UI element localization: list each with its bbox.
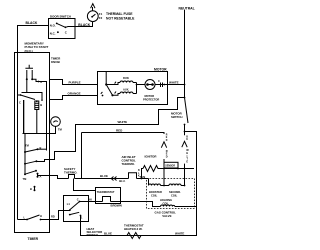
- svg-text:WHITE: WHITE: [118, 120, 128, 124]
- svg-text:RUN: RUN: [123, 76, 129, 80]
- svg-text:PROTECTOR: PROTECTOR: [143, 97, 159, 101]
- wire to gas valve node A: [163, 159, 165, 169]
- wire windings join: [137, 83, 146, 94]
- svg-text:F2: F2: [99, 16, 103, 20]
- svg-text:ORANGE: ORANGE: [68, 91, 81, 95]
- door switch lever: [57, 23, 66, 27]
- timer contact pair B: [34, 186, 36, 188]
- svg-text:C: C: [19, 100, 21, 104]
- svg-text:BROWN: BROWN: [111, 204, 122, 208]
- wire branch to heater return: [81, 132, 197, 236]
- wire to thermal fuse: [75, 22, 93, 27]
- svg-text:SECOND.: SECOND.: [169, 190, 181, 194]
- svg-text:(N.O.): (N.O.): [25, 49, 33, 53]
- svg-text:MOTOR: MOTOR: [145, 94, 155, 98]
- svg-text:N.C.: N.C.: [50, 32, 56, 36]
- timer motor TM: [51, 117, 61, 127]
- svg-text:TM: TM: [58, 128, 62, 132]
- svg-text:B: B: [40, 103, 42, 107]
- timer box: [15, 53, 50, 233]
- svg-text:E: E: [186, 159, 188, 163]
- svg-text:BOOSTER: BOOSTER: [149, 190, 162, 194]
- heat selector switch box: [64, 196, 89, 222]
- wire orange timer to motor: [50, 96, 98, 100]
- svg-text:THERMOSTAT: THERMOSTAT: [97, 190, 115, 194]
- svg-text:VALVE: VALVE: [162, 214, 171, 218]
- node A junction: [163, 168, 165, 170]
- timer cam bus: [24, 100, 25, 174]
- connector arrow red: [161, 142, 166, 148]
- motor protector: [145, 80, 155, 90]
- wire fuse to L1: [92, 7, 94, 11]
- timer heater resistor B: [35, 101, 39, 110]
- wire motor out white: [155, 84, 185, 86]
- thermostat element: [96, 197, 121, 202]
- svg-text:KNOB: KNOB: [51, 60, 61, 64]
- air inlet thermostat: [129, 173, 149, 179]
- svg-text:RED: RED: [116, 129, 123, 133]
- svg-text:COIL: COIL: [171, 194, 178, 198]
- svg-text:SWITCH: SWITCH: [171, 115, 182, 119]
- svg-text:A: A: [40, 174, 42, 178]
- booster coil: [149, 184, 170, 186]
- wire to terminal A: [32, 79, 38, 81]
- pin C ticks: [161, 83, 163, 88]
- timer contact pair A: [37, 173, 39, 175]
- wire push-start to cam lever: [22, 79, 43, 99]
- svg-text:H: H: [40, 214, 42, 218]
- wire into heat selector: [64, 210, 70, 212]
- svg-text:N.O.: N.O.: [50, 23, 56, 27]
- wire safety row to thermostat box: [74, 179, 96, 191]
- gas control valve box (dashed): [147, 179, 195, 209]
- arrow L1 power: [91, 4, 95, 9]
- booster coil feed: [148, 179, 150, 186]
- thermal fuse F1-F2: [87, 11, 98, 22]
- door switch S1 box: [49, 19, 76, 39]
- secondary coil: [169, 184, 185, 186]
- wire purple timer to motor: [50, 80, 98, 85]
- svg-text:HEATER-2 W.: HEATER-2 W.: [124, 227, 143, 231]
- svg-text:WHITE: WHITE: [169, 81, 179, 85]
- timer L-H switch: [18, 215, 50, 220]
- svg-text:THERMO.: THERMO.: [122, 162, 136, 166]
- igniter R1: [143, 166, 194, 172]
- connector chevrons: [111, 177, 116, 181]
- svg-text:PURPLE: PURPLE: [69, 81, 81, 85]
- svg-text:AUX.: AUX.: [123, 88, 129, 92]
- svg-text:IGNITOR: IGNITOR: [145, 155, 158, 159]
- wire heat selector to thermostat: [80, 201, 96, 203]
- svg-text:C: C: [77, 197, 79, 201]
- svg-text:D: D: [166, 154, 168, 158]
- svg-text:DOOR SWITCH: DOOR SWITCH: [50, 15, 71, 19]
- wire neutral lower: [184, 125, 186, 136]
- svg-text:SWITCH: SWITCH: [87, 233, 98, 237]
- heat selector lever hi: [70, 202, 80, 210]
- svg-text:TM: TM: [23, 177, 27, 181]
- svg-text:THERMO.: THERMO.: [64, 170, 78, 174]
- svg-text:NOT RESETABLE: NOT RESETABLE: [106, 17, 135, 21]
- svg-text:NEUTRAL: NEUTRAL: [179, 6, 195, 10]
- node booster junction: [163, 185, 165, 187]
- svg-text:BLUE: BLUE: [104, 232, 112, 236]
- wire resistor to TM bus: [36, 110, 38, 134]
- svg-text:WHITE: WHITE: [175, 232, 184, 236]
- wire red igniter feed: [82, 133, 165, 179]
- wire to gas valve node B: [184, 164, 186, 169]
- wire timer to heat selector: [50, 211, 64, 220]
- wire thermostat to gas valve: [121, 201, 147, 203]
- svg-text:C: C: [158, 79, 160, 83]
- svg-text:B: B: [40, 146, 42, 150]
- svg-text:TIMER: TIMER: [28, 237, 39, 241]
- push-to-start contact: [25, 65, 33, 79]
- wire white timer feed: [50, 98, 185, 160]
- wire door switch common out: [65, 26, 75, 29]
- svg-text:B: B: [30, 187, 32, 191]
- svg-text:SENSOR: SENSOR: [165, 166, 175, 168]
- wire TM bottom bus: [23, 126, 56, 133]
- svg-text:THERMAL FUSE: THERMAL FUSE: [106, 12, 133, 16]
- timer cam switch 2: [24, 163, 26, 165]
- motor box M1: [98, 72, 168, 105]
- svg-text:RD: RD: [51, 215, 55, 219]
- svg-text:HI: HI: [89, 198, 92, 202]
- flame sensor: [164, 162, 178, 168]
- svg-text:COIL: COIL: [151, 194, 158, 198]
- svg-text:BLU.: BLU.: [119, 179, 125, 183]
- motor centrifugal switch: [105, 72, 107, 85]
- wire lever down leg: [23, 100, 25, 134]
- timer cam switch 3: [24, 173, 26, 175]
- svg-text:MOTOR: MOTOR: [154, 67, 167, 71]
- thermostat heater resistor: [127, 233, 141, 239]
- heat selector lever lo: [70, 212, 79, 214]
- svg-text:TM: TM: [25, 144, 29, 148]
- wire inner bus: [39, 82, 47, 151]
- wire neutral bus: [184, 10, 186, 98]
- motor switch on neutral: [184, 97, 186, 99]
- svg-text:BLACK: BLACK: [26, 21, 38, 25]
- thermostat box: [96, 188, 121, 204]
- connector arrow white: [182, 141, 187, 147]
- node B junction: [184, 168, 186, 170]
- safety thermostat row: [50, 175, 129, 179]
- wire black feed to igniter: [142, 169, 144, 179]
- svg-text:BLUE: BLUE: [100, 174, 108, 178]
- wire black from timer feed to door switch: [18, 26, 49, 220]
- timer cam lever C: [20, 94, 22, 96]
